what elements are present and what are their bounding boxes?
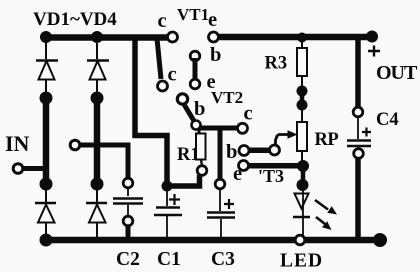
svg-text:C4: C4 [376,110,399,130]
wire T3 b link [248,148,270,154]
wire RP wiper arrow [276,135,290,147]
resistor R3 [297,41,307,86]
wire C1 junction to R1 bottom [167,175,200,186]
svg-text:C1: C1 [157,249,181,270]
node dot rail left end [40,234,53,247]
LED light arrow 2 [316,217,325,224]
terminal VT1 b socket [190,51,200,61]
svg-text:e: e [208,9,217,31]
diode VD2 [87,40,109,93]
svg-text:c: c [244,103,253,125]
svg-text:e: e [233,163,242,185]
terminal OUT+ dot [366,31,378,43]
wire C4 bottom to rail [355,158,361,240]
capacitor C3 [207,189,235,238]
wire IN terminal 1 stub [22,166,46,171]
label + OUT [368,46,380,57]
node connector dots R3-RP [297,86,308,97]
terminal C3 top socket [215,179,225,189]
node junction dot R3 top [297,33,307,43]
node junction dot C1 top [162,181,173,192]
wire branch down to C3 top [218,128,223,179]
diode VD4 [86,190,107,237]
label + C4 [362,128,371,137]
resistor R1 [196,129,206,166]
terminal VT2 b socket [177,94,187,104]
label + C3 [224,199,234,209]
terminal VT1 e socket [209,32,219,42]
wire T3 e to RP bottom [248,163,301,169]
LED D1 [293,185,310,237]
node dot below VD1 [40,92,53,105]
node junction dot rail-VD1 [40,31,52,43]
svg-text:LED: LED [280,251,323,272]
svg-text:R3: R3 [265,54,288,74]
svg-text:VT2: VT2 [211,88,243,107]
terminal T3 e socket [239,161,249,171]
svg-text:c: c [168,64,177,86]
wire IN terminal 2 to C2 top [79,145,128,178]
wire top output rail VT1 e to OUT+ [218,34,369,41]
terminal IN-1 [13,164,23,174]
wire right input column [94,98,101,184]
terminal IN-2 [70,140,80,150]
svg-text:c: c [158,10,167,32]
svg-text:b: b [226,141,237,163]
node dot below VD2 [91,92,104,105]
svg-text:C3: C3 [211,249,235,270]
wire VT2 b to R1 top [184,104,195,122]
wire bottom negative rail [44,237,378,244]
node junction dot rail-VD2 [91,31,103,43]
terminal C4 top socket [353,107,363,117]
wire R1 top to T3 c socket [200,126,238,131]
LED light arrow 1 [315,200,328,210]
terminal C2 top socket [123,178,133,188]
svg-text:C2: C2 [116,249,140,270]
terminal VT2 e socket [190,79,200,89]
terminal RP wiper socket [270,145,280,155]
terminal LED bottom socket [295,235,305,245]
node junction dots RP bottom [297,160,309,172]
capacitor C4 [347,117,371,149]
terminal C2 bottom socket [123,216,133,226]
svg-text:'T3: 'T3 [258,166,284,186]
terminal R1 bottom socket [197,166,207,176]
node dot above VD3 [40,178,53,191]
svg-text:VD1~VD4: VD1~VD4 [33,9,117,30]
terminal OUT- dot [373,233,387,247]
wire OUT branch down to C4 [355,36,361,108]
terminal R1 top socket [192,121,201,130]
svg-text:VT1: VT1 [177,5,209,24]
wire left input column [43,98,50,184]
diode VD3 [35,190,56,237]
wire top positive rail from bridge to VT1 c socket [44,34,168,41]
svg-text:R1: R1 [177,145,200,165]
terminal T3 c socket [238,123,248,133]
svg-text:IN: IN [5,131,30,156]
capacitor C1 [154,191,182,238]
svg-text:OUT: OUT [376,62,418,84]
potentiometer RP [297,110,307,162]
diode VD1 [36,40,58,93]
svg-text:b: b [210,44,221,66]
terminal VT2 c socket [158,81,168,91]
wire C2 stub to rail [126,226,131,238]
terminal C4 bottom socket [354,149,364,159]
svg-text:RP: RP [315,130,339,150]
terminal VT1 c socket [168,32,178,42]
capacitor C2 [113,188,143,216]
wire rail branch down to R1 bottom loop [135,37,167,183]
wire rail branch to VT2 c socket [157,39,161,80]
label + C1 [169,194,180,205]
svg-text:b: b [194,98,205,120]
node dot above VD4 [91,178,104,191]
terminal T3 b socket [239,146,249,156]
wire VT1 b to VT2 e link [193,58,198,82]
